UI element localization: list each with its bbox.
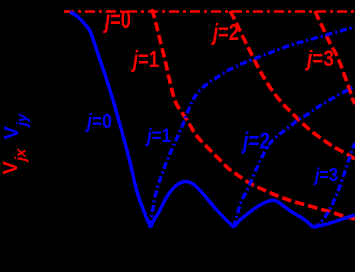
- svg-text:j=1: j=1: [131, 46, 160, 72]
- curve V1x red j=1 (thick dashed): [152, 9, 355, 219]
- curve V0y blue j=0 (solid, cusped): [70, 12, 355, 228]
- svg-text:j=0: j=0: [103, 6, 131, 34]
- curve V0x red j=0 (horizontal dash-dot line): [64, 10, 355, 12]
- curve V3x red j=3 (thick dashed): [315, 11, 355, 104]
- curve V2y blue j=2 (dash-dot): [234, 86, 355, 228]
- svg-text:j=3: j=3: [304, 46, 334, 71]
- svg-text:j=2: j=2: [241, 128, 270, 154]
- svg-text:j=1: j=1: [144, 126, 171, 147]
- curve V1y blue j=1 (dash-dot): [151, 27, 355, 227]
- svg-text:j=3: j=3: [313, 165, 338, 185]
- curve V2x red j=2 (thick dashed): [230, 11, 355, 159]
- curve V3y blue j=3 (dash-dot): [314, 143, 355, 228]
- svg-text:j=2: j=2: [211, 19, 239, 45]
- svg-text:j=0: j=0: [84, 111, 112, 133]
